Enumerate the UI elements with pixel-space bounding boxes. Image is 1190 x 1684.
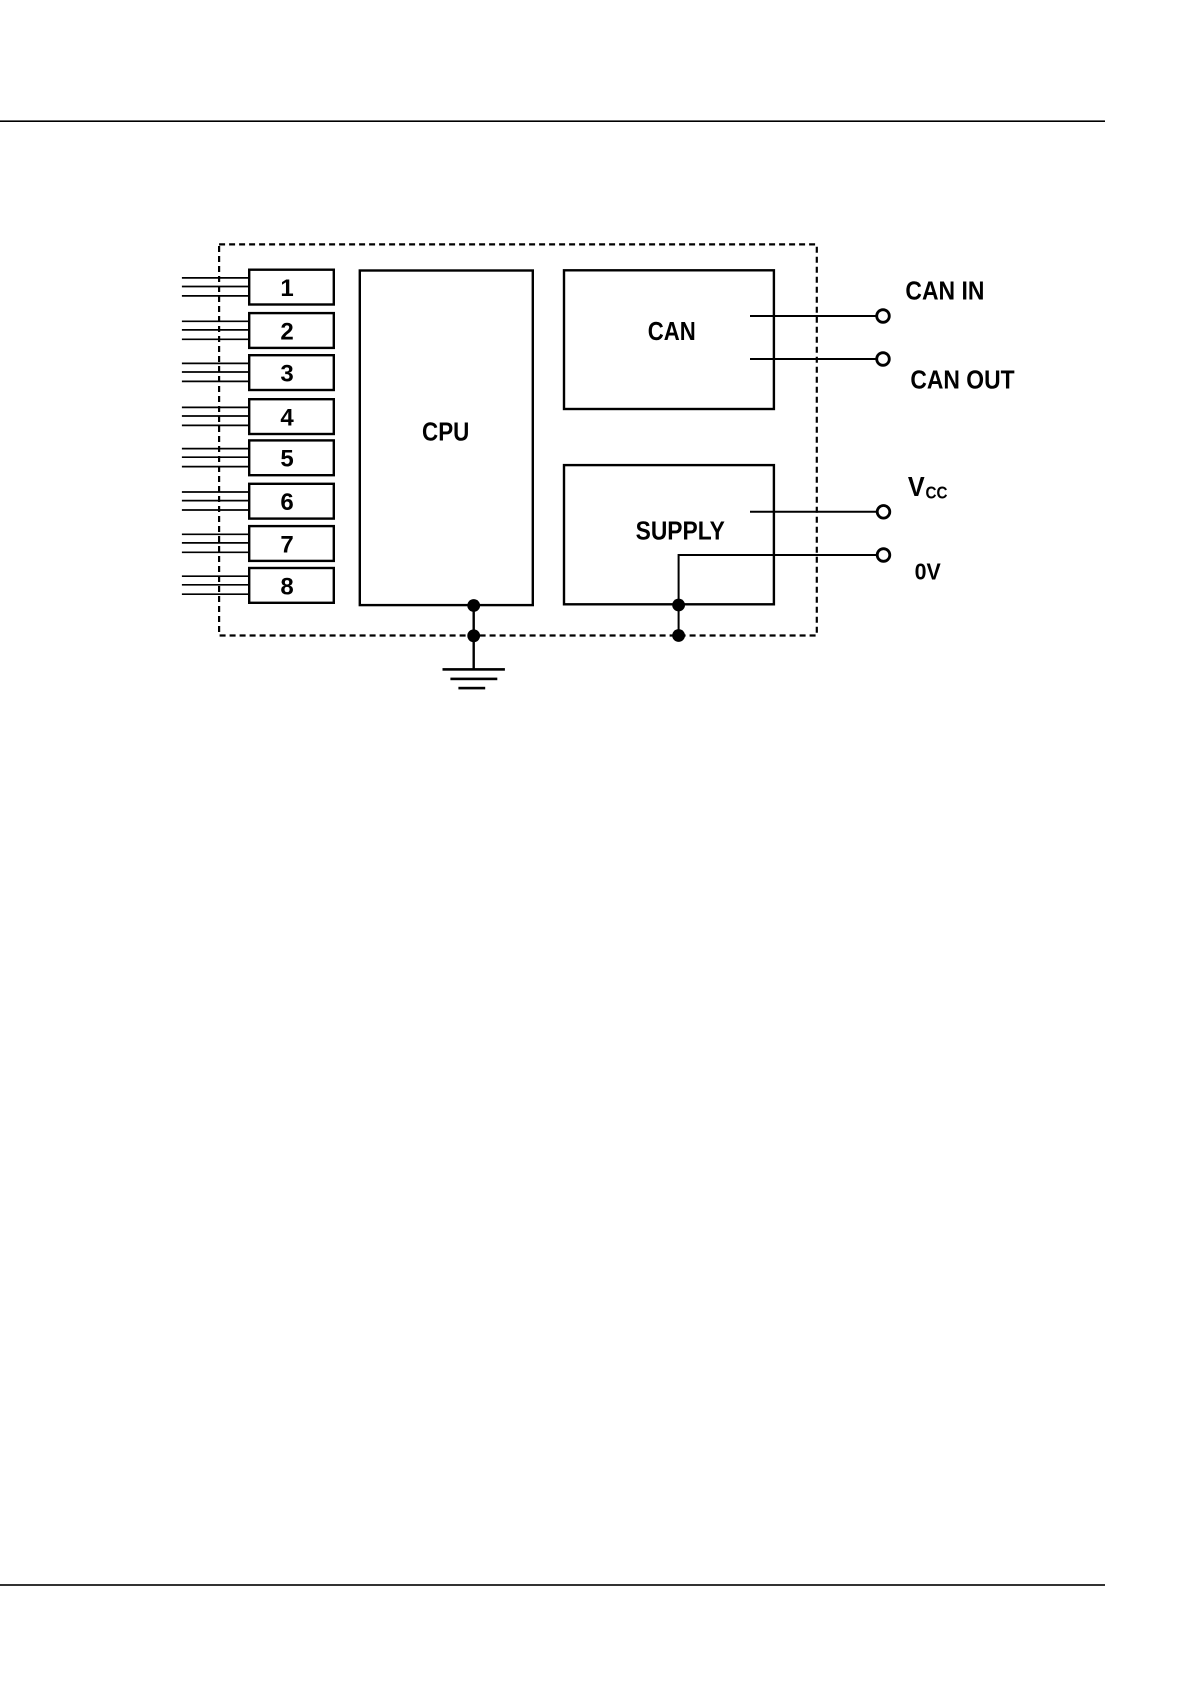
connector block 2: [249, 313, 334, 348]
svg-text:8: 8: [280, 573, 293, 600]
terminal 0V: [877, 549, 890, 562]
block CAN: [564, 270, 774, 409]
svg-text:V: V: [908, 471, 925, 502]
svg-text:CC: CC: [926, 483, 948, 503]
wire CAN IN: [750, 315, 876, 317]
wire CAN OUT: [750, 358, 876, 360]
svg-text:CAN IN: CAN IN: [905, 276, 984, 306]
junction dot CPU bottom: [467, 599, 480, 612]
dashed module boundary: [219, 244, 817, 635]
junction dot ground on boundary: [467, 629, 480, 642]
junction dot 0V on boundary: [672, 629, 685, 642]
connector block 6: [249, 484, 334, 519]
svg-text:6: 6: [280, 489, 293, 516]
junction dot supply bottom: [672, 599, 685, 612]
wire bundle to connector 2: [182, 321, 251, 339]
connector block 5: [249, 440, 334, 475]
terminal Vcc: [877, 506, 890, 519]
block CPU: [360, 271, 533, 606]
svg-text:1: 1: [280, 275, 293, 302]
wire bundle to connector 4: [182, 407, 251, 425]
wire Vcc: [750, 511, 877, 513]
svg-text:SUPPLY: SUPPLY: [636, 516, 725, 546]
footer rule: [0, 1584, 1105, 1586]
svg-text:7: 7: [280, 531, 293, 558]
wire CPU ground: [473, 605, 475, 671]
wire bundle to connector 7: [182, 534, 251, 552]
connector block 4: [249, 399, 334, 434]
svg-text:5: 5: [280, 446, 293, 473]
wire bundle to connector 8: [182, 576, 251, 594]
svg-text:0V: 0V: [915, 558, 941, 584]
wire bundle to connector 1: [182, 278, 251, 296]
connector block 7: [249, 526, 334, 561]
label Vcc: [908, 471, 948, 503]
wire bundle to connector 5: [182, 449, 251, 467]
svg-text:CAN: CAN: [648, 316, 696, 346]
terminal CAN IN: [877, 310, 890, 323]
wire bundle to connector 3: [182, 363, 251, 381]
connector block 1: [249, 270, 334, 305]
block SUPPLY: [564, 465, 774, 604]
terminal CAN OUT: [877, 353, 890, 366]
wire 0V: [679, 555, 877, 636]
connector block 8: [249, 568, 334, 603]
svg-text:2: 2: [280, 318, 293, 345]
ground symbol: [443, 668, 505, 689]
svg-text:4: 4: [280, 405, 294, 432]
svg-text:CAN OUT: CAN OUT: [910, 365, 1014, 395]
svg-text:CPU: CPU: [422, 416, 469, 446]
header rule: [0, 120, 1105, 122]
svg-text:3: 3: [280, 361, 293, 388]
connector block 3: [249, 355, 334, 390]
wire bundle to connector 6: [182, 492, 251, 510]
